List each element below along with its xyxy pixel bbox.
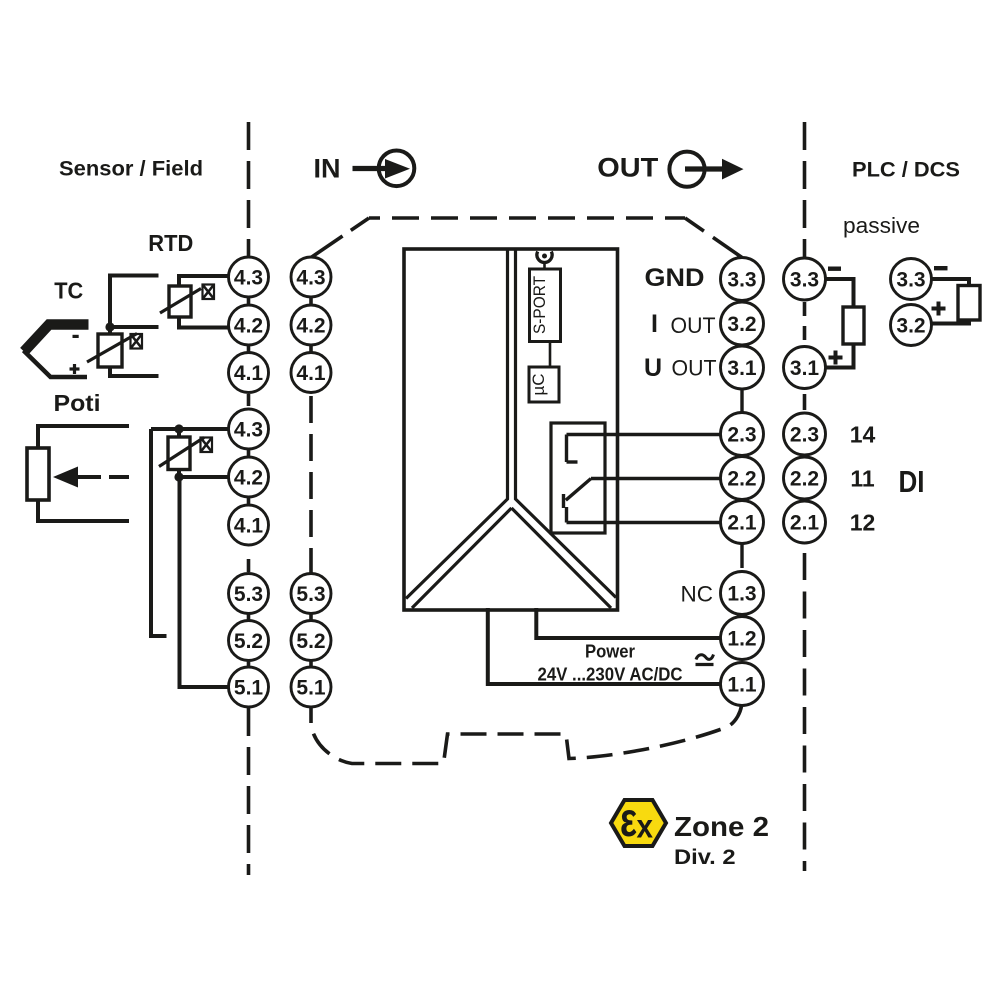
svg-text:4.2: 4.2 (296, 315, 325, 338)
svg-text:OUT: OUT (672, 356, 717, 381)
svg-text:4.3: 4.3 (296, 267, 325, 290)
svg-text:RTD: RTD (148, 230, 193, 256)
svg-text:4.2: 4.2 (234, 315, 263, 338)
svg-text:1.1: 1.1 (727, 674, 757, 697)
svg-text:2.3: 2.3 (727, 424, 756, 447)
svg-text:1.2: 1.2 (727, 628, 756, 651)
svg-text:PLC / DCS: PLC / DCS (852, 158, 960, 182)
svg-text:NC: NC (681, 582, 714, 607)
svg-text:3.2: 3.2 (727, 313, 756, 336)
svg-text:Div. 2: Div. 2 (674, 845, 736, 869)
svg-text:5.2: 5.2 (296, 630, 325, 653)
svg-text:5.3: 5.3 (234, 583, 263, 606)
svg-text:U: U (644, 354, 662, 382)
svg-text:3.3: 3.3 (790, 269, 819, 292)
svg-text:IN: IN (314, 154, 341, 184)
svg-text:3.3: 3.3 (896, 269, 925, 292)
svg-text:DI: DI (899, 464, 925, 499)
svg-text:11: 11 (850, 466, 875, 492)
svg-text:µC: µC (529, 373, 548, 395)
svg-text:4.3: 4.3 (234, 267, 263, 290)
svg-text:OUT: OUT (671, 313, 716, 338)
svg-text:4.1: 4.1 (234, 515, 264, 538)
svg-text:1.3: 1.3 (727, 583, 756, 606)
svg-text:5.1: 5.1 (234, 677, 264, 700)
svg-text:x: x (637, 808, 654, 845)
svg-text:2.3: 2.3 (790, 424, 819, 447)
svg-text:3.3: 3.3 (727, 269, 756, 292)
svg-text:passive: passive (843, 213, 920, 238)
svg-text:4.3: 4.3 (234, 419, 263, 442)
svg-text:4.2: 4.2 (234, 467, 263, 490)
svg-text:OUT: OUT (597, 152, 659, 182)
svg-text:Zone 2: Zone 2 (674, 811, 769, 842)
svg-text:Poti: Poti (54, 390, 101, 416)
svg-text:S-PORT: S-PORT (530, 276, 549, 334)
svg-text:5.2: 5.2 (234, 630, 263, 653)
svg-text:Sensor / Field: Sensor / Field (59, 157, 203, 181)
svg-text:24V ...230V AC/DC: 24V ...230V AC/DC (538, 665, 683, 685)
svg-text:14: 14 (850, 422, 876, 448)
svg-text:ε: ε (620, 794, 637, 847)
svg-text:5.3: 5.3 (296, 583, 325, 606)
svg-text:3.1: 3.1 (790, 357, 820, 380)
svg-text:2.1: 2.1 (790, 512, 820, 535)
svg-text:TC: TC (54, 278, 83, 304)
svg-text:Power: Power (585, 642, 635, 662)
svg-text:2.2: 2.2 (790, 468, 819, 491)
svg-text:2.2: 2.2 (727, 468, 756, 491)
svg-text:3.1: 3.1 (727, 357, 757, 380)
svg-text:4.1: 4.1 (296, 362, 326, 385)
svg-text:2.1: 2.1 (727, 512, 757, 535)
svg-text:I: I (651, 310, 658, 338)
svg-text:4.1: 4.1 (234, 362, 264, 385)
svg-text:3.2: 3.2 (896, 315, 925, 338)
svg-text:GND: GND (645, 264, 705, 292)
svg-text:12: 12 (850, 510, 876, 536)
svg-text:5.1: 5.1 (296, 677, 326, 700)
